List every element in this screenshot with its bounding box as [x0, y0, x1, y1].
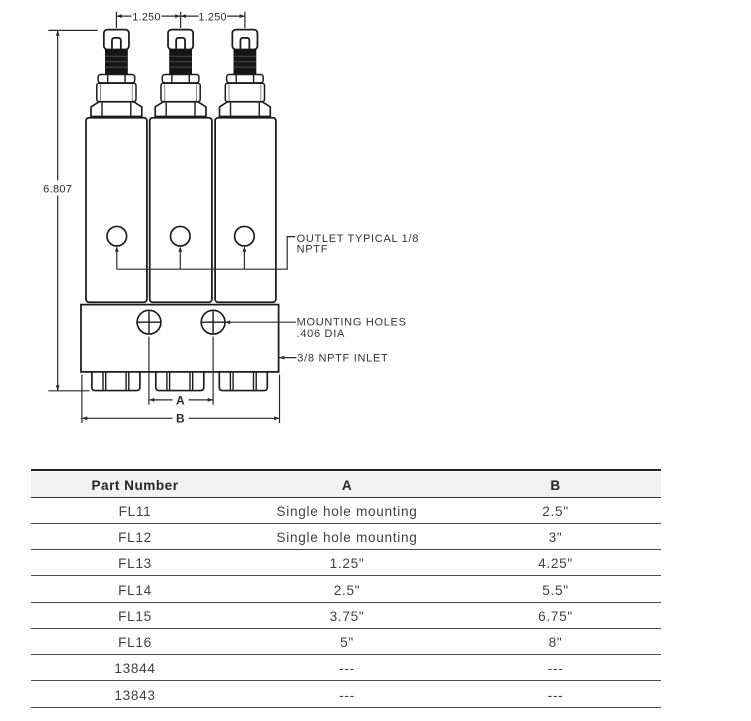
svg-text:B: B [176, 412, 185, 426]
svg-text:NPTF: NPTF [297, 244, 329, 256]
unit 1 jam nut [98, 75, 135, 83]
inlet leader [279, 357, 296, 359]
manifold base block [81, 305, 279, 372]
unit 2 collar [161, 83, 200, 101]
unit 3 jam nut [227, 75, 264, 83]
unit 1 cap notch [112, 38, 121, 50]
unit 3 outlet port [235, 226, 255, 246]
unit 3 cap [232, 30, 257, 50]
mounting hole 1 [137, 310, 161, 334]
svg-text:1.250: 1.250 [132, 11, 161, 23]
svg-text:MOUNTING HOLES: MOUNTING HOLES [297, 317, 407, 329]
unit 3 body [215, 118, 276, 302]
mounting hole 2 [201, 310, 225, 334]
unit 1 outlet port [107, 226, 127, 246]
unit 2 body [150, 118, 212, 302]
unit 2 outlet leader arrow [179, 251, 181, 270]
unit 3 cap notch [240, 38, 249, 50]
unit 1 threaded stem [105, 50, 128, 75]
outlet leader polyline [117, 237, 295, 270]
unit 2 outlet port [171, 226, 191, 246]
dim A extension lines [149, 337, 213, 405]
unit 3 collar [225, 83, 264, 101]
unit 1 cap [104, 30, 129, 50]
unit 2 cap notch [176, 38, 185, 50]
unit 1 collar [97, 83, 136, 101]
dim 6.807 extension lines [48, 30, 97, 390]
unit 3 threaded stem [234, 50, 257, 75]
mounting holes leader [225, 321, 296, 323]
inlet fitting 1 [92, 372, 140, 390]
dim 6.807 vertical line [57, 30, 59, 390]
dim B line [82, 417, 280, 419]
unit 2 threaded stem [169, 50, 192, 75]
inlet fitting 3 [219, 372, 267, 390]
svg-text:1.250: 1.250 [198, 11, 227, 23]
svg-text:3/8 NPTF INLET: 3/8 NPTF INLET [297, 353, 388, 365]
svg-text:A: A [176, 394, 185, 408]
unit 1 outlet leader arrow [116, 251, 118, 270]
unit 3 outlet leader arrow [243, 251, 245, 270]
dim 1.250 extension ticks [116, 12, 245, 28]
unit 2 hex nut [155, 102, 206, 117]
svg-text:.406 DIA: .406 DIA [297, 328, 345, 340]
dim 1.250 line [116, 15, 245, 17]
unit 2 jam nut [162, 75, 199, 83]
inlet fitting 2 [156, 372, 204, 390]
unit 1 body [86, 118, 147, 302]
unit 1 hex nut [91, 102, 142, 117]
svg-text:6.807: 6.807 [43, 183, 72, 195]
unit 3 hex nut [220, 102, 271, 117]
unit 2 cap [168, 30, 193, 50]
dim B extension lines [82, 375, 280, 424]
dim A line [149, 399, 213, 401]
